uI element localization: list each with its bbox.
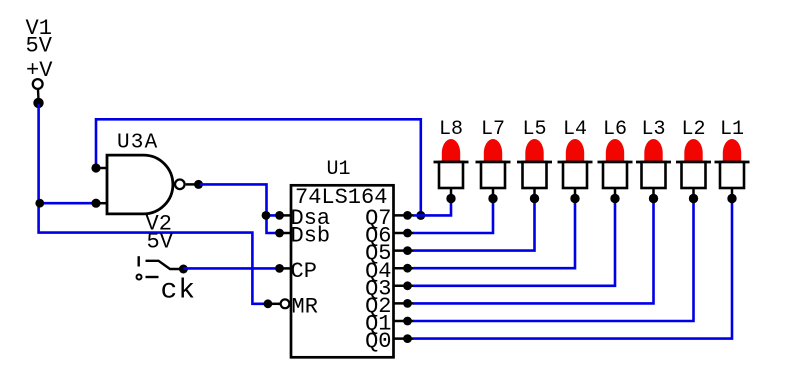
pin stub CP: [280, 267, 292, 270]
NAND input pin stubs: [96, 167, 107, 170]
voltage source V2 label: [146, 212, 174, 255]
wire Q5 to LED L5: [413, 199, 535, 251]
NAND lower input dot: [91, 199, 100, 208]
wire Q2 to LED L3: [413, 199, 654, 303]
wire Q3 to LED L6: [413, 199, 615, 286]
svg-text:5V: 5V: [147, 230, 174, 255]
LED L6: [598, 118, 633, 203]
voltage source V1 label: [26, 16, 54, 83]
op-amp U3A body (NAND gate): [107, 155, 173, 214]
LED L1: [715, 118, 750, 203]
NAND output bubble: [175, 180, 185, 190]
wire Q1 to LED L2: [413, 199, 694, 321]
LED L8: [434, 118, 469, 203]
svg-text:L4: L4: [563, 118, 587, 141]
V1 node dot: [33, 98, 43, 108]
NAND output pin stub: [186, 183, 199, 186]
right pin stubs Q7..Q0: [394, 215, 414, 338]
pin dot Dsb: [275, 229, 284, 238]
LED L5: [517, 118, 552, 203]
svg-text:CP: CP: [291, 259, 317, 284]
svg-text:L6: L6: [603, 118, 627, 141]
V1 terminal lead: [37, 90, 40, 99]
LED L4: [558, 118, 593, 203]
junction dot Dsa branch: [262, 211, 271, 220]
IC U1 74LS164 body: [291, 185, 394, 357]
svg-text:MR: MR: [292, 295, 318, 320]
wire V1 branch to NAND lower input: [39, 202, 96, 205]
junction dot on V1 wire: [35, 199, 44, 208]
LED L7: [476, 118, 511, 203]
svg-text:L8: L8: [439, 118, 463, 141]
wire Q4 to LED L4: [413, 199, 575, 268]
NAND output dot: [194, 180, 203, 189]
switch ck (clock): [137, 256, 188, 279]
pin stub Dsb: [280, 232, 292, 235]
wire NAND output to Dsa and Dsb: [200, 184, 280, 215]
right pin dots Q7..Q0: [403, 211, 412, 343]
junction dot Q7 feedback: [416, 211, 425, 220]
pin MR bubble: [281, 299, 290, 308]
pin stub MR: [268, 303, 280, 306]
wire Q6 to LED L7: [413, 199, 493, 233]
wire V1 down and right to MR (net V2/5V): [39, 104, 268, 304]
svg-text:U3A: U3A: [117, 132, 158, 155]
svg-text:U1: U1: [327, 158, 351, 181]
pin dot Dsa: [275, 211, 284, 220]
LED L3: [636, 118, 671, 203]
svg-text:5V: 5V: [26, 34, 53, 59]
pin dot MR: [264, 299, 273, 308]
wire switch to CP: [183, 267, 279, 270]
svg-text:L7: L7: [481, 118, 505, 141]
wire feedback Q7 to NAND upper input: [96, 119, 421, 215]
svg-text:ck: ck: [161, 276, 197, 307]
LED L2: [676, 118, 711, 203]
wire Q0 to LED L1: [413, 199, 732, 339]
svg-text:Dsb: Dsb: [291, 224, 331, 249]
svg-text:L2: L2: [681, 118, 705, 141]
svg-text:Q0: Q0: [365, 329, 391, 354]
NAND upper input dot: [91, 163, 100, 172]
svg-text:L3: L3: [641, 118, 665, 141]
pin dot CP: [275, 264, 284, 273]
wire Q7 to LED L8: [413, 199, 451, 215]
V1 +V terminal circle: [33, 79, 43, 89]
svg-text:L1: L1: [720, 118, 744, 141]
svg-text:L5: L5: [522, 118, 546, 141]
pin stub Dsa: [280, 214, 292, 217]
